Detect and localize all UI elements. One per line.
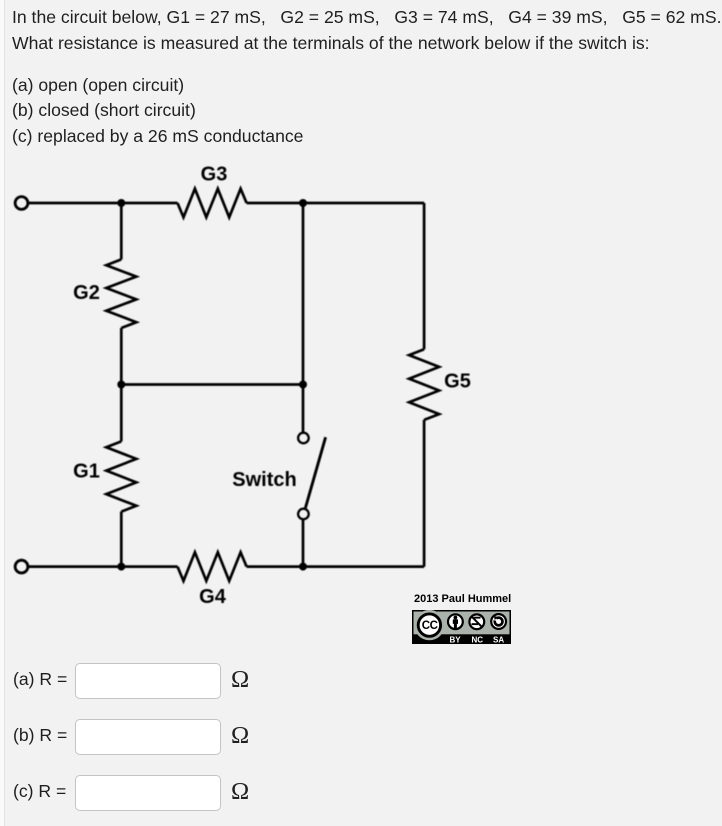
svg-text:SA: SA <box>493 635 504 644</box>
svg-text:G5: G5 <box>444 371 471 393</box>
left page edge strip <box>0 0 5 826</box>
wire top-left <box>28 202 178 205</box>
wire right vertical lower <box>423 420 426 567</box>
svg-text:G2: G2 <box>73 282 100 304</box>
wire bottom-right <box>247 565 425 568</box>
badge black strip <box>414 634 510 642</box>
svg-text:CC: CC <box>422 620 438 632</box>
wire left vertical lower <box>120 512 123 567</box>
wire top-right <box>247 202 425 205</box>
node dot bottom-left junction <box>117 563 125 571</box>
svg-text:Switch: Switch <box>232 469 296 491</box>
terminal T2 (bottom-left) <box>15 560 28 573</box>
wire bottom-left <box>28 565 178 568</box>
node dot top-left junction <box>117 199 125 207</box>
NC dollar bars <box>474 617 480 619</box>
wire switch branch lower <box>302 520 305 567</box>
NC icon circle <box>469 614 484 629</box>
switch blade <box>305 437 325 508</box>
switch contact lower <box>298 509 309 520</box>
SA arrowhead <box>494 616 498 620</box>
problem text <box>12 6 721 28</box>
CC logo circle <box>418 614 440 636</box>
SA arrow arc <box>495 618 503 626</box>
BY person torso <box>453 619 458 628</box>
attribution: 2013 Paul Hummel <box>414 593 511 605</box>
wire left vertical middle <box>120 328 123 441</box>
circuit schematic <box>0 0 500 650</box>
resistor G2 <box>106 259 136 328</box>
node dot middle-right junction <box>299 381 307 389</box>
badge background <box>413 611 511 644</box>
svg-text:G1: G1 <box>73 461 100 483</box>
CC BY-NC-SA badge <box>412 610 511 644</box>
wire left vertical upper <box>120 203 123 259</box>
wire middle horizontal <box>121 383 303 386</box>
NC slash <box>472 617 482 628</box>
svg-text:BY: BY <box>449 635 461 644</box>
wire switch branch upper <box>302 203 305 432</box>
resistor G5 <box>409 349 439 420</box>
switch contact upper <box>298 433 309 444</box>
SA icon circle <box>491 614 506 629</box>
svg-text:NC: NC <box>472 635 484 644</box>
answer row (c) <box>13 780 66 802</box>
answer row (b) <box>13 724 67 746</box>
node dot top-right junction <box>299 199 307 207</box>
CC logo halo <box>414 610 444 640</box>
svg-text:G4: G4 <box>199 586 227 608</box>
node dot bottom-right junction <box>299 563 307 571</box>
resistor G3 <box>178 189 247 218</box>
resistor G1 <box>106 441 136 511</box>
SA arrow notch <box>493 617 498 622</box>
resistor G4 <box>178 552 247 581</box>
answer row (a) <box>13 668 67 690</box>
wire right vertical upper <box>423 203 426 349</box>
BY person head <box>454 616 458 620</box>
svg-text:G3: G3 <box>201 164 228 186</box>
terminal T1 (top-left) <box>15 197 28 210</box>
node dot middle-left junction <box>117 381 125 389</box>
BY icon circle <box>448 614 463 629</box>
